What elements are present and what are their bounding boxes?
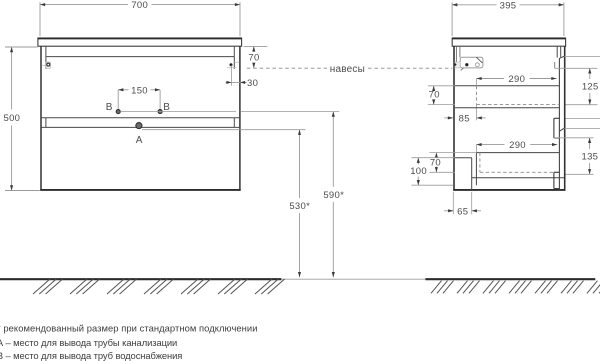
dimension 30 extension line from hinge [231, 65, 233, 85]
dimension 100 extension lines [412, 157, 455, 159]
side view: drawer2 dashed front edge [479, 153, 481, 173]
dimension 290 bottom extension [475, 145, 477, 153]
dimension 125 extension lines [555, 67, 598, 69]
side view: interior shelf line top [455, 85, 560, 87]
dimension 150 extension lines [117, 90, 119, 109]
svg-text:500: 500 [4, 113, 21, 124]
side view: drawer2 top line [476, 152, 559, 154]
extra cropped extension lines right [564, 55, 600, 57]
front view: left hanger bracket icon [46, 62, 51, 68]
svg-text:А – место для вывода трубы кан: А – место для вывода трубы канализации [0, 337, 177, 348]
extension line B level [241, 111, 339, 113]
dimension 65 [444, 210, 453, 212]
side view: inner right wall line [558, 59, 560, 190]
svg-text:65: 65 [457, 206, 468, 217]
svg-text:150: 150 [131, 85, 148, 96]
dimension 500 [11, 47, 13, 110]
side view: back recess step [455, 157, 472, 159]
dashed hanger level line left segment [247, 67, 327, 69]
line through B outlets [120, 111, 236, 113]
side view: short front plane line [554, 62, 556, 68]
svg-text:125: 125 [582, 81, 599, 92]
outlet point A (drain) [136, 123, 142, 129]
side view: top-right inner verticals [556, 46, 558, 57]
floor line right segment [425, 278, 595, 280]
dimension 150 [118, 89, 128, 91]
dimension 135 extension lines [554, 137, 594, 139]
side view: drawer1 dashed front edge [476, 86, 478, 105]
floor line left segment [0, 278, 281, 280]
dimension 30 [226, 81, 247, 83]
dimension 700 [40, 4, 128, 6]
side view: shelf line under drawer1 [455, 107, 560, 109]
front view: drawer gap band [41, 117, 240, 119]
dimension 395 extension lines [451, 2, 453, 36]
svg-text:290: 290 [508, 74, 525, 85]
outlet point B left [116, 110, 120, 114]
dimension 100 [417, 158, 419, 165]
side view: hanger wall attachment [455, 62, 460, 68]
svg-text:B: B [106, 102, 113, 113]
svg-text:В – место для вывода труб водо: В – место для вывода труб водоснабжения [0, 350, 182, 361]
dimension 70 upper side [433, 86, 435, 90]
front view: right hanger dot [230, 63, 233, 66]
dimension 530* [299, 130, 301, 198]
floor hatching left [33, 279, 285, 294]
svg-text:590*: 590* [323, 190, 344, 201]
extension line A level [142, 129, 306, 131]
svg-text:100: 100 [410, 166, 427, 177]
side view: countertop slab [452, 38, 565, 46]
dimension 135 [589, 138, 591, 149]
svg-text:530*: 530* [289, 201, 310, 212]
dimension 125 [589, 68, 591, 79]
dimension 70 upper extension lines [428, 85, 455, 87]
side view: drawer2 dashed bottom [480, 171, 554, 173]
floor line thin connector [281, 278, 425, 280]
dimension 395 [452, 4, 496, 6]
side view: drawer1 front tab on right wall [553, 118, 555, 138]
svg-text:85: 85 [459, 113, 470, 124]
front view: countertop slab [38, 38, 242, 46]
svg-text:290: 290 [509, 140, 526, 151]
svg-text:30: 30 [247, 78, 258, 89]
side view: top-left inner lines [455, 46, 457, 62]
floor hatching right [431, 281, 600, 294]
dimension 70 lower side [435, 153, 437, 157]
dashed hanger level line right segment [368, 67, 452, 69]
front view: inner side panel lines and apron [45, 46, 47, 69]
svg-text:70: 70 [248, 52, 259, 63]
dimension 500 extension lines [5, 46, 38, 48]
dimension 85 [444, 117, 453, 119]
side view: drawer2 front tab on right wall [553, 172, 555, 188]
dimension 65 extension lines [452, 192, 454, 215]
side view: drawer1 dashed bottom [477, 104, 560, 106]
svg-text:навесы: навесы [330, 64, 365, 75]
svg-text:70: 70 [429, 90, 440, 101]
dimension 70 extension line [244, 45, 268, 47]
side view: hanger bracket (навес) [460, 57, 483, 68]
side view: bottom panel top edge [472, 177, 564, 179]
dimension 590* [332, 112, 334, 187]
svg-text:A: A [136, 135, 143, 146]
svg-text:135: 135 [582, 151, 599, 162]
dimension 70 right [253, 46, 255, 51]
svg-text:* рекомендованный размер при с: * рекомендованный размер при стандартном… [0, 323, 258, 334]
dimension 70 lower extension lines [430, 152, 477, 154]
dimension 290 top extension [476, 79, 478, 86]
side view: body outline [453, 46, 455, 190]
dimension 290 top [477, 78, 505, 80]
dimension 290 bottom [476, 144, 504, 146]
side view: chamfer diagonal between drawers [559, 128, 564, 131]
svg-text:700: 700 [131, 0, 148, 11]
side view: top-right chamfer diagonal [559, 56, 564, 59]
svg-text:395: 395 [500, 0, 517, 11]
outlet point B right [158, 110, 162, 114]
dimension 700 extension lines [39, 2, 41, 36]
svg-text:B: B [163, 102, 170, 113]
front view: cabinet body outline [40, 46, 42, 190]
svg-text:70: 70 [430, 158, 441, 169]
